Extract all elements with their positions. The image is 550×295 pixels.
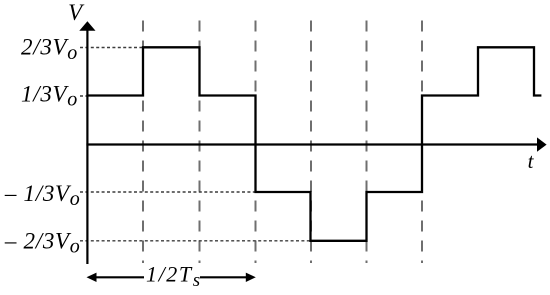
svg-text:– 1/3Vo: – 1/3Vo: [4, 181, 81, 210]
svg-text:– 2/3Vo: – 2/3Vo: [4, 228, 81, 257]
